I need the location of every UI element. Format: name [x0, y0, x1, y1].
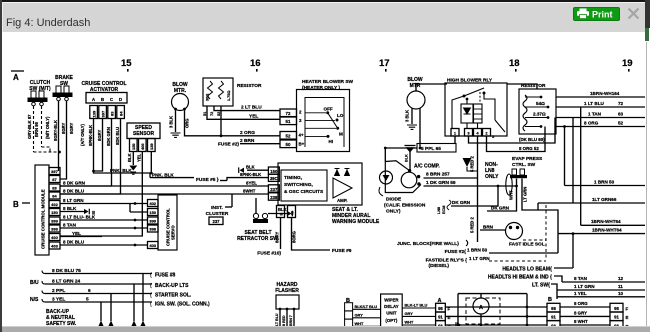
- svg-text:5: 5: [86, 297, 89, 303]
- wire relay pin3 DK BLU 80: [469, 118, 556, 144]
- svg-text:B/U: B/U: [30, 280, 39, 286]
- svg-text:WHT: WHT: [509, 190, 514, 200]
- module pin 150: [49, 209, 60, 216]
- wire fuse 8 line: [143, 274, 152, 322]
- connector pin 93 (left): [436, 321, 446, 330]
- svg-text:18: 18: [509, 58, 520, 69]
- svg-text:N/S: N/S: [30, 297, 39, 303]
- svg-text:GRY-BLK 87: GRY-BLK 87: [27, 114, 32, 139]
- wiper delay unit: [381, 294, 403, 329]
- svg-text:12: 12: [618, 276, 624, 281]
- svg-text:FUSE #10): FUSE #10): [257, 251, 281, 257]
- wire 1 BRN-WHT 64 (mid): [581, 224, 645, 226]
- svg-text:3: 3: [467, 131, 470, 136]
- svg-text:ONLY): ONLY): [386, 209, 401, 215]
- svg-text:SWITCHING,: SWITCHING,: [284, 182, 313, 188]
- wire 8PNK-BLK to 39C: [227, 178, 268, 181]
- wire WHT (right): [402, 324, 435, 326]
- svg-text:8GRY-BLK: 8GRY-BLK: [53, 120, 58, 141]
- wire 1 YEL 10: [557, 296, 645, 298]
- wire 8GRY to fuse 10: [280, 218, 282, 250]
- svg-text:54Ω: 54Ω: [536, 101, 545, 106]
- wire speed sensor 139: [150, 152, 152, 174]
- svg-text:SERVO: SERVO: [171, 225, 176, 240]
- wire brake switch lead 2: [60, 101, 67, 179]
- wire headlights riser: [572, 234, 574, 268]
- svg-text:SENSOR: SENSOR: [133, 131, 155, 137]
- svg-text:JUNC. BLOCK(FIRE WALL): JUNC. BLOCK(FIRE WALL): [397, 241, 459, 247]
- svg-text:8 RED: 8 RED: [282, 315, 286, 326]
- svg-text:YEL: YEL: [249, 114, 258, 120]
- svg-text:238: 238: [270, 195, 278, 200]
- svg-text:LT GRN: LT GRN: [523, 187, 528, 202]
- wire PNK-BLK to fuse 5: [150, 177, 194, 179]
- resistor (heater blower): [203, 78, 233, 106]
- svg-text:8 DK GRN: 8 DK GRN: [63, 181, 86, 186]
- seat belt minder module box: [278, 163, 362, 205]
- svg-text:FASTIDLE RLY’S {: FASTIDLE RLY’S {: [426, 258, 468, 264]
- svg-text:1LT GRN66: 1LT GRN66: [592, 197, 617, 202]
- svg-text:72: 72: [286, 111, 291, 116]
- svg-text:D: D: [119, 97, 123, 102]
- connector pin 91 (left): [436, 312, 446, 321]
- wire evap LT GRN: [522, 179, 558, 254]
- servo pin 403: [148, 242, 159, 249]
- connector pin 150: [268, 167, 279, 174]
- wire blower motor ORG: [185, 110, 281, 136]
- svg-text:2 PPL: 2 PPL: [52, 288, 65, 294]
- connector pin 91 (mid): [547, 312, 560, 321]
- svg-text:403: 403: [149, 243, 156, 248]
- svg-text:1: 1: [454, 131, 457, 136]
- svg-text:HI: HI: [329, 139, 334, 144]
- wire 8 LT BLU-BLK (module 399 to servo 399): [60, 219, 148, 221]
- wiper harness connector stack: [345, 303, 353, 311]
- wire from activator pin B (8GRY): [94, 119, 103, 172]
- window chrome: title bar: [2, 2, 645, 32]
- connector arrow on row D: [457, 322, 462, 327]
- svg-text:8 DK BLU: 8 DK BLU: [63, 189, 85, 194]
- wire blower to relay: [416, 84, 447, 91]
- svg-text:8 TAN: 8 TAN: [574, 276, 588, 281]
- connector pin 50: [280, 140, 297, 148]
- speed sensor pin 400: [139, 139, 147, 152]
- wire servo 150 row: [130, 211, 148, 213]
- svg-text:8 LT BLU- BLK: 8 LT BLU- BLK: [63, 215, 96, 220]
- printer icon: [576, 8, 590, 19]
- svg-text:1 TAN: 1 TAN: [588, 112, 602, 117]
- svg-text:402: 402: [51, 202, 58, 207]
- svg-text:8DK BLU: 8DK BLU: [115, 127, 120, 145]
- svg-text:1 LT GRN: 1 LT GRN: [574, 284, 595, 289]
- module pin 400: [49, 234, 60, 241]
- svg-text:1BRN-WHT64: 1BRN-WHT64: [591, 219, 621, 224]
- svg-text:3: 3: [299, 118, 302, 123]
- svg-text:397: 397: [51, 169, 58, 174]
- relay pin 4: [474, 129, 482, 137]
- svg-text:403: 403: [51, 244, 58, 249]
- wire relay pin4 5 RED 2 to junction block: [477, 136, 479, 242]
- wire ign sw line: [101, 302, 152, 321]
- activator pin 397: [99, 106, 107, 119]
- diode (calif emission): [380, 171, 393, 184]
- wire 8 LT GRN (module 402 to servo 402): [60, 203, 148, 205]
- wire 1 LT BLU 72: [556, 106, 645, 108]
- svg-text:3 BLK: 3 BLK: [169, 116, 174, 128]
- seat belt retractor switch: [253, 213, 258, 218]
- svg-text:8YEL: 8YEL: [246, 181, 257, 186]
- svg-text:LN8: LN8: [437, 207, 441, 214]
- wire back-up lts line: [134, 284, 152, 321]
- wire 1 TAN 63: [556, 117, 645, 119]
- svg-text:RESISTOR: RESISTOR: [237, 83, 262, 89]
- svg-text:WIPER: WIPER: [384, 298, 399, 303]
- window chrome: top border: [0, 0, 650, 2]
- svg-text:3 YEL: 3 YEL: [52, 297, 65, 303]
- svg-text:DK GRN: DK GRN: [452, 200, 471, 205]
- svg-text:OFF: OFF: [324, 107, 333, 112]
- svg-text:8 BLK: 8 BLK: [63, 206, 77, 211]
- wire riser TAN to LT GRN row: [572, 118, 574, 204]
- svg-text:8 DK BLU 75: 8 DK BLU 75: [52, 268, 81, 274]
- svg-text:EVAP PRESS: EVAP PRESS: [512, 156, 543, 162]
- svg-text:1.75Ω: 1.75Ω: [227, 91, 231, 101]
- svg-text:BRN 86: BRN 86: [34, 121, 39, 137]
- wire resistor tap 52: [220, 106, 222, 136]
- svg-text:51: 51: [286, 119, 291, 124]
- svg-text:& OSC CIRCUITS: & OSC CIRCUITS: [284, 189, 324, 195]
- relay pin 2: [483, 129, 491, 137]
- wire 1 BRN-WHT 64 (lower): [558, 233, 645, 235]
- svg-text:139: 139: [92, 110, 97, 117]
- connector pin 39C: [268, 174, 279, 181]
- svg-text:87: 87: [52, 177, 57, 182]
- wire 8 GRY: [560, 315, 610, 317]
- svg-text:2 BRN: 2 BRN: [240, 138, 255, 144]
- wire 1 LT GRN 11: [557, 289, 645, 291]
- svg-text:237: 237: [270, 187, 278, 192]
- svg-text:30Ω: 30Ω: [206, 94, 210, 101]
- wire BLK from retractor: [268, 213, 287, 215]
- module pin 84: [49, 192, 60, 199]
- svg-text:RETRACTOR SW.: RETRACTOR SW.: [237, 236, 279, 242]
- ground at A/C comp rail: [463, 158, 472, 167]
- svg-text:139: 139: [149, 143, 154, 150]
- svg-text:A: A: [13, 73, 19, 82]
- wire YEL (module 400): [60, 236, 102, 238]
- svg-text:1 BRN 50: 1 BRN 50: [467, 248, 488, 253]
- connector arrow 1: [98, 321, 104, 328]
- wire WHT (left): [353, 325, 381, 327]
- diode pair above amp: [335, 169, 340, 176]
- svg-text:83: 83: [52, 186, 57, 191]
- svg-text:BRN 7: BRN 7: [289, 315, 293, 326]
- svg-text:AMP.: AMP.: [337, 198, 347, 203]
- svg-text:3 BLK: 3 BLK: [405, 110, 410, 122]
- wire GRY (right): [402, 315, 435, 317]
- wire BLK with connector arrow to 150: [247, 169, 268, 171]
- svg-text:LT. SW{: LT. SW{: [532, 283, 550, 289]
- svg-text:8DK GRN: 8DK GRN: [106, 127, 111, 146]
- svg-text:A/C COMP.: A/C COMP.: [414, 164, 440, 170]
- svg-text:INST.: INST.: [211, 205, 223, 211]
- svg-text:DIODE: DIODE: [386, 197, 402, 203]
- wire GRY (left): [353, 317, 381, 319]
- svg-text:8PNK-BLK: 8PNK-BLK: [88, 125, 93, 146]
- svg-text:399: 399: [149, 219, 156, 224]
- svg-text:B: B: [101, 97, 105, 102]
- fast idle solenoid: [506, 223, 523, 240]
- wire DK GRN branch: [451, 186, 498, 206]
- connector pin 93 (mid): [547, 321, 560, 330]
- svg-text:(DIESEL): (DIESEL): [428, 263, 449, 269]
- speed sensor pin 139: [148, 139, 156, 152]
- svg-text:8ORG: 8ORG: [292, 231, 297, 243]
- svg-text:BLK: BLK: [405, 154, 409, 162]
- wire riser LT BLU to BRN-WHT row: [580, 107, 582, 225]
- module pin 398: [49, 225, 60, 232]
- svg-text:5 PPL 65: 5 PPL 65: [421, 146, 441, 152]
- svg-text:8PNK-BLK: 8PNK-BLK: [240, 172, 261, 177]
- svg-text:8 ORG: 8 ORG: [574, 301, 588, 306]
- wire row D: [445, 324, 547, 326]
- svg-text:PNK. BLK: PNK. BLK: [110, 168, 132, 173]
- svg-text:DK GRN: DK GRN: [491, 206, 510, 211]
- svg-text:72: 72: [618, 101, 624, 106]
- svg-text:8 ORG: 8 ORG: [584, 121, 599, 126]
- svg-text:4+: 4+: [299, 133, 304, 138]
- servo pin 150: [148, 209, 159, 216]
- svg-text:398: 398: [51, 227, 58, 232]
- svg-text:FLASHER: FLASHER: [275, 288, 299, 294]
- svg-text:LO: LO: [337, 113, 344, 118]
- svg-text:17: 17: [379, 58, 390, 69]
- wire 8 TAN 12: [562, 281, 645, 283]
- module bottom pin B: [277, 206, 285, 218]
- timing switching osc circuits: [281, 170, 327, 201]
- speed sensor pin 150: [130, 139, 138, 152]
- module pin 397: [49, 168, 60, 175]
- svg-text:CLUSTER: CLUSTER: [206, 211, 229, 217]
- svg-text:BLK: BLK: [127, 153, 132, 162]
- svg-text:8 LT GRN: 8 LT GRN: [63, 198, 84, 203]
- svg-text:63: 63: [618, 112, 624, 117]
- connector pin 93 (right): [610, 321, 623, 330]
- svg-text:(CALIF. EMISSION: (CALIF. EMISSION: [384, 203, 426, 209]
- svg-text:8 GRY: 8 GRY: [574, 310, 587, 315]
- svg-text:(A/T ONLY): (A/T ONLY): [80, 123, 85, 146]
- wire blower PPL: [419, 109, 421, 149]
- svg-text:8GRY: 8GRY: [61, 123, 66, 134]
- svg-text:M: M: [339, 132, 343, 137]
- module pin 402: [49, 201, 60, 208]
- svg-text:FAST IDLE SOL: FAST IDLE SOL: [509, 242, 545, 248]
- ammeter gauge A: [466, 298, 500, 324]
- wire 8 DK GRN (module 83 to connector 237): [60, 185, 268, 187]
- svg-text:BLK-LT BLU: BLK-LT BLU: [405, 303, 428, 308]
- wire starter sol line: [111, 294, 152, 322]
- svg-text:15: 15: [121, 58, 132, 69]
- svg-text:400: 400: [51, 235, 58, 240]
- svg-text:B: B: [548, 297, 552, 303]
- svg-text:(M/T ONLY): (M/T ONLY): [45, 116, 50, 139]
- wire resistor tap 72: [214, 106, 280, 111]
- svg-text:BLK: BLK: [278, 207, 287, 212]
- wire comp clutch BLK to ground: [409, 150, 411, 170]
- svg-text:BLK/LT BLU: BLK/LT BLU: [355, 304, 378, 309]
- svg-text:150: 150: [131, 143, 136, 150]
- wire 1 LT GRN 66: [538, 202, 645, 204]
- svg-text:HEADLTS HI BEAM & IND {: HEADLTS HI BEAM & IND {: [488, 275, 552, 281]
- svg-text:1BRN-WH164: 1BRN-WH164: [590, 91, 620, 96]
- svg-text:FUSE #8: FUSE #8: [155, 273, 176, 279]
- fast idle dashed enclosure: [545, 205, 547, 258]
- svg-text:FUSE #5 }: FUSE #5 }: [196, 177, 219, 183]
- svg-text:5 RED 2: 5 RED 2: [470, 217, 475, 233]
- wire 1 BRN 50 (right): [565, 185, 646, 187]
- svg-text:1 BRN 50: 1 BRN 50: [594, 180, 615, 185]
- svg-text:CRUISE CONTROL MODULE: CRUISE CONTROL MODULE: [41, 189, 46, 249]
- wire 8 DK BLU (module 403 to servo 403): [60, 244, 148, 246]
- wire row F: [445, 306, 547, 308]
- svg-text:E: E: [626, 315, 629, 320]
- svg-text:ECM: ECM: [442, 206, 446, 214]
- wire 2 BRN from fuse 2: [240, 143, 280, 145]
- relay pin 1: [451, 129, 459, 137]
- svg-text:84: 84: [119, 111, 124, 116]
- svg-text:BLK: BLK: [246, 165, 255, 170]
- wire from activator pin A (8PNK-BLK): [94, 119, 151, 174]
- bottom scrollbar: [2, 326, 650, 332]
- svg-text:52: 52: [618, 121, 624, 126]
- module pin 87: [49, 176, 60, 183]
- svg-text:2 ORG: 2 ORG: [240, 130, 255, 136]
- svg-text:8 DK BLU: 8 DK BLU: [63, 240, 85, 245]
- svg-text:BACK-UP LTS: BACK-UP LTS: [155, 283, 189, 289]
- svg-text:FUSE #9: FUSE #9: [332, 248, 352, 254]
- svg-text:98: 98: [438, 306, 443, 311]
- connector pin 98 (mid): [547, 303, 560, 312]
- wire 8 WHT: [560, 324, 610, 326]
- svg-text:YEL: YEL: [72, 231, 81, 236]
- svg-text:GRY: GRY: [355, 313, 364, 318]
- wire from activator pin D (8DK BLU): [60, 119, 121, 195]
- right edge green segment: [645, 28, 649, 41]
- svg-text:ONLY: ONLY: [485, 174, 499, 180]
- svg-text:50: 50: [286, 142, 291, 147]
- svg-text:16: 16: [250, 58, 261, 69]
- wire brake switch lead 1: [58, 101, 60, 171]
- svg-text:72: 72: [210, 112, 214, 116]
- connector arrow 4: [140, 321, 146, 328]
- print label: [590, 7, 620, 21]
- svg-text:1 LT GRN: 1 LT GRN: [469, 256, 490, 261]
- svg-text:(OPT): (OPT): [385, 318, 397, 323]
- svg-text:Print: Print: [592, 10, 613, 20]
- connector pin 52: [280, 132, 297, 140]
- svg-text:8 TAN: 8 TAN: [63, 223, 77, 228]
- svg-text:C: C: [110, 97, 114, 102]
- servo pin 399: [148, 217, 159, 224]
- svg-text:1BRN-WHT64: 1BRN-WHT64: [592, 227, 622, 232]
- svg-text:84: 84: [52, 194, 57, 199]
- svg-text:52: 52: [217, 112, 221, 116]
- svg-text:399: 399: [51, 219, 58, 224]
- wire blower BLK ground: [411, 109, 413, 125]
- wire speed sensor YEL: [60, 152, 142, 237]
- wire 8 ORG 52: [556, 126, 645, 128]
- svg-text:STARTER SOL.: STARTER SOL.: [155, 293, 192, 299]
- connector pin 237: [268, 185, 279, 192]
- wire row E: [445, 315, 547, 317]
- wire gauge loop: [458, 293, 527, 295]
- wire BLK/LT BLU (left): [353, 308, 381, 310]
- svg-text:237: 237: [213, 219, 221, 224]
- svg-text:HEADLTS LO BEAM{: HEADLTS LO BEAM{: [502, 267, 552, 273]
- module pin 83: [49, 184, 60, 191]
- wire clutch switch leads (dashed): [33, 106, 35, 152]
- activator pin 84: [117, 106, 125, 119]
- svg-text:10: 10: [618, 291, 624, 296]
- wire label 5 PPL 65: [417, 144, 456, 153]
- svg-text:WARNING MODULE: WARNING MODULE: [332, 219, 380, 225]
- connector arrow 3: [131, 321, 137, 328]
- connector pin 98 (left): [436, 303, 446, 312]
- servo pin 398: [148, 225, 159, 232]
- hazard flasher leads: [279, 309, 281, 326]
- svg-text:8GRY: 8GRY: [97, 130, 102, 141]
- svg-text:11: 11: [618, 284, 623, 289]
- svg-text:8 BRN 257: 8 BRN 257: [426, 172, 450, 178]
- svg-text:8WHT: 8WHT: [243, 189, 256, 194]
- wire 8 TAN (module 398 to servo 398): [60, 227, 148, 229]
- svg-text:TIMING,: TIMING,: [284, 175, 303, 181]
- module pin 399: [49, 217, 60, 224]
- svg-text:CTRL. SW: CTRL. SW: [512, 162, 536, 168]
- svg-text:DELAY: DELAY: [384, 304, 399, 309]
- svg-text:150: 150: [270, 169, 278, 174]
- svg-text:8GRY: 8GRY: [69, 123, 74, 134]
- svg-text:(DK BLU 80): (DK BLU 80): [519, 137, 545, 142]
- svg-text:B: B: [13, 200, 19, 209]
- wire evap WHT: [487, 179, 517, 212]
- svg-text:2 LT BLU: 2 LT BLU: [241, 105, 262, 111]
- svg-text:LT BLU: LT BLU: [275, 313, 279, 326]
- wire 8 ORG: [560, 306, 610, 308]
- wire relay to resistor top: [507, 84, 537, 89]
- svg-text:2: 2: [299, 110, 302, 115]
- relay pin 3: [465, 129, 473, 137]
- svg-text:IGN. SW. (SOL. CONN.): IGN. SW. (SOL. CONN.): [155, 302, 210, 308]
- svg-text:FUSE #2): FUSE #2): [218, 142, 239, 148]
- svg-text:402: 402: [149, 201, 156, 206]
- svg-text:98: 98: [551, 306, 556, 311]
- svg-text:2.37Ω: 2.37Ω: [533, 112, 546, 117]
- svg-text:HEATER BLOWER SW: HEATER BLOWER SW: [302, 79, 354, 85]
- wire relay pin1 down: [454, 136, 456, 144]
- connector pin 91 (right): [610, 312, 623, 321]
- svg-text:A: A: [92, 97, 96, 102]
- svg-text:FUSE #2{: FUSE #2{: [445, 249, 466, 255]
- wire speed sensor BLK to ground: [132, 152, 134, 166]
- module pin 403: [49, 242, 60, 249]
- svg-text:83: 83: [110, 111, 115, 116]
- svg-text:400: 400: [140, 143, 145, 150]
- wire BLK-LT BLU (right): [402, 307, 435, 309]
- svg-text:397: 397: [101, 110, 106, 117]
- svg-text:150: 150: [51, 210, 58, 215]
- right edge thin line: [646, 42, 647, 327]
